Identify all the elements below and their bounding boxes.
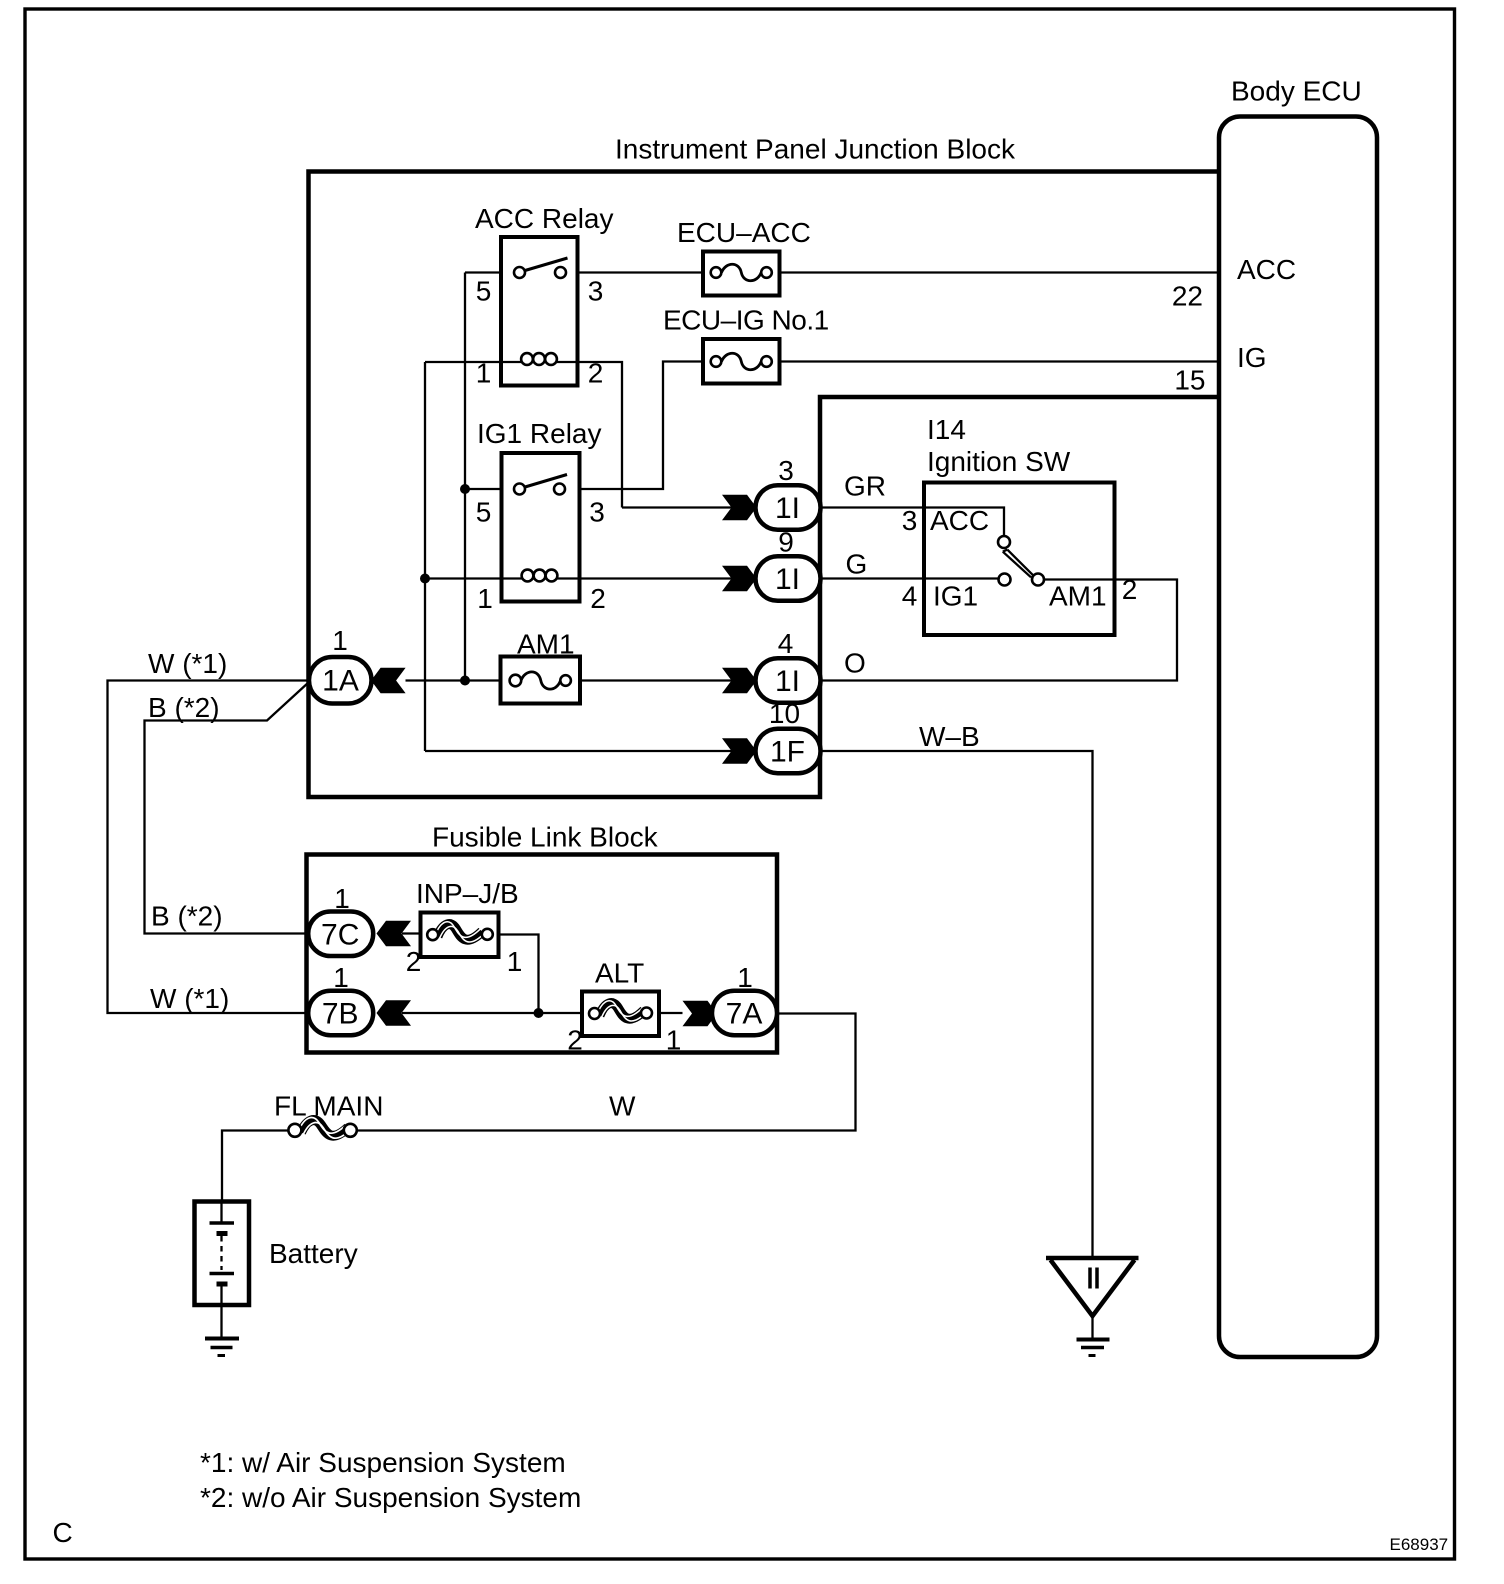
IC Body ECU outline	[1219, 117, 1377, 1358]
svg-text:*1: w/ Air Suspension System: *1: w/ Air Suspension System	[200, 1447, 566, 1478]
junction dot x425 IG1 pin1	[420, 574, 430, 584]
wire net G: IG1 relay pin2 to connector 1I	[580, 577, 756, 579]
svg-text:2: 2	[567, 1025, 583, 1056]
wire FL MAIN to battery positive	[222, 1131, 289, 1202]
connector 1F oval	[756, 729, 821, 774]
connector 1I (G) oval	[756, 556, 821, 601]
junction dot x465 IG1 pin5	[460, 484, 470, 494]
svg-text:7C: 7C	[321, 919, 359, 952]
fuse ALT box	[582, 992, 659, 1037]
battery B1 box	[195, 1202, 250, 1306]
wire net W: connector 7A to FL MAIN	[357, 1014, 856, 1131]
fuse ALT element (fusible link)	[589, 1001, 652, 1021]
connector 7A oval	[712, 991, 777, 1035]
svg-text:5: 5	[476, 276, 492, 307]
fuse INP-J/B element (fusible link)	[427, 922, 493, 942]
svg-text:AM1: AM1	[517, 629, 575, 660]
svg-text:*2: w/o Air Suspension System: *2: w/o Air Suspension System	[200, 1482, 581, 1513]
wire fuse INP-J/B pin1 to ALT wire junction	[499, 935, 539, 1014]
wire fuse ECU-IG No.1 to IG1 relay pin3	[580, 362, 704, 490]
wire net x425 to connector 1F	[425, 750, 756, 752]
svg-text:1I: 1I	[775, 665, 800, 698]
connector 1A arrow	[371, 668, 406, 693]
svg-text:INP–J/B: INP–J/B	[416, 878, 519, 909]
relay IG1 Relay box	[502, 453, 580, 602]
wire IG1 relay pin1 to node x425	[425, 577, 502, 579]
svg-text:W–B: W–B	[919, 721, 980, 752]
wire net GR: node x622 to connector 1I	[622, 506, 756, 508]
wire net G: connector 1I to ignition switch IG1 terminal	[821, 577, 1000, 579]
wire ACC relay pin3 to fuse ECU-ACC	[578, 271, 704, 273]
wire net ACC: fuse ECU-ACC to Body ECU pin22	[780, 271, 1220, 273]
svg-text:15: 15	[1174, 365, 1205, 396]
wire net GR: connector 1I to ignition switch ACC terminal	[821, 508, 1005, 539]
fuse AM1 element	[510, 672, 571, 689]
svg-text:C: C	[53, 1517, 73, 1548]
wire ACC relay pin5 to node x465	[465, 271, 501, 273]
svg-text:3: 3	[589, 497, 605, 528]
relay ACC Relay coil	[501, 353, 578, 365]
svg-text:W (*1): W (*1)	[150, 983, 229, 1014]
svg-text:4: 4	[902, 581, 918, 612]
wire ACC relay pin1 to node x425	[425, 361, 501, 363]
connector 1I (O) arrow	[722, 668, 757, 693]
svg-text:1: 1	[666, 1025, 682, 1056]
svg-text:B (*2): B (*2)	[151, 901, 223, 932]
fuse ECU-IG No.1 box	[703, 339, 780, 384]
switch I14 terminal ACC	[998, 536, 1010, 548]
junction dot INP-J/B to ALT wire	[534, 1008, 544, 1018]
svg-text:AM1: AM1	[1049, 581, 1107, 612]
battery B1 internal cells	[210, 1202, 235, 1339]
svg-text:1I: 1I	[775, 563, 800, 596]
connector 7B arrow	[377, 1000, 412, 1025]
svg-text:ACC: ACC	[930, 505, 989, 536]
connector 1I (GR) arrow	[722, 495, 757, 520]
fuse INP-J/B box	[421, 913, 499, 958]
svg-text:E68937: E68937	[1390, 1535, 1449, 1554]
connector 7C oval	[308, 912, 373, 957]
svg-text:Fusible Link Block: Fusible Link Block	[432, 822, 659, 853]
svg-text:1F: 1F	[770, 736, 805, 769]
wire fuse ALT pin1 to connector 7A	[659, 1012, 683, 1014]
wire net B(*2): connector 1A to connector 7C	[145, 682, 310, 934]
svg-text:1: 1	[333, 962, 349, 993]
svg-text:1: 1	[737, 962, 753, 993]
connector 7C arrow	[377, 921, 412, 946]
svg-text:1A: 1A	[322, 665, 359, 698]
relay ACC Relay switch contact pin5	[514, 267, 525, 278]
wire net IG: fuse ECU-IG No.1 to Body ECU pin15	[780, 360, 1220, 362]
wire connector 7B to fuse ALT pin2	[402, 1012, 582, 1014]
svg-text:4: 4	[778, 628, 794, 659]
wire IG1 relay pin5 to node x465	[465, 488, 502, 490]
svg-text:ACC Relay: ACC Relay	[475, 203, 613, 234]
junction dot x465 AM1 wire	[460, 676, 470, 686]
connector 1A oval	[309, 657, 372, 704]
svg-text:FL MAIN: FL MAIN	[274, 1091, 383, 1122]
svg-text:2: 2	[588, 358, 604, 389]
wire net W-B: connector 1F to shield ground	[821, 751, 1093, 1259]
svg-text:3: 3	[902, 505, 918, 536]
fuse ECU-ACC element	[711, 264, 772, 281]
svg-text:1I: 1I	[775, 492, 800, 525]
svg-text:10: 10	[769, 698, 800, 729]
svg-text:ECU–ACC: ECU–ACC	[677, 217, 811, 248]
svg-text:ACC: ACC	[1237, 254, 1296, 285]
switch I14 terminal IG1	[999, 574, 1011, 586]
block Fusible Link Block outline	[307, 855, 778, 1053]
svg-text:ALT: ALT	[595, 958, 644, 989]
connector 1I (GR) oval	[756, 485, 821, 530]
svg-text:I14: I14	[927, 414, 966, 445]
svg-text:IG1 Relay: IG1 Relay	[477, 418, 602, 449]
svg-text:2: 2	[1122, 574, 1138, 605]
wire AM1 fuse to connector 1A	[406, 679, 501, 681]
svg-text:O: O	[844, 648, 866, 679]
fuse AM1 box	[501, 657, 581, 704]
svg-text:W: W	[609, 1091, 636, 1122]
svg-text:Instrument Panel Junction Bloc: Instrument Panel Junction Block	[615, 134, 1016, 165]
svg-text:3: 3	[778, 455, 794, 486]
svg-text:2: 2	[406, 946, 422, 977]
switch I14 Ignition SW box	[924, 483, 1115, 636]
svg-text:9: 9	[778, 527, 794, 558]
svg-text:Ignition SW: Ignition SW	[927, 446, 1071, 477]
svg-text:22: 22	[1172, 281, 1203, 312]
connector 1I (O) oval	[756, 658, 821, 703]
connector 7A arrow	[683, 1001, 718, 1026]
wire vertical net x425 (relay coils to 1F)	[424, 362, 426, 751]
relay IG1 Relay coil	[502, 570, 580, 582]
svg-text:Body ECU: Body ECU	[1231, 76, 1362, 107]
svg-text:1: 1	[477, 583, 493, 614]
svg-text:Battery: Battery	[269, 1238, 358, 1269]
connector 1I (G) arrow	[722, 566, 757, 591]
ground symbol below shield triangle	[1077, 1340, 1110, 1356]
wire ACC relay pin2 to GR net	[578, 362, 623, 508]
switch I14 blade (double line ACC to AM1)	[1003, 550, 1033, 578]
wire net O: ignition switch AM1 terminal pin2 loop to connector 1I	[821, 580, 1178, 681]
svg-text:5: 5	[476, 497, 492, 528]
svg-text:IG: IG	[1237, 342, 1267, 373]
svg-text:7B: 7B	[322, 998, 359, 1031]
svg-text:IG1: IG1	[933, 581, 978, 612]
svg-text:GR: GR	[844, 471, 886, 502]
svg-text:W (*1): W (*1)	[148, 648, 227, 679]
relay ACC Relay switch contact pin3	[555, 267, 566, 278]
relay IG1 Relay switch contact pin5	[514, 484, 525, 495]
switch I14 terminal AM1	[1032, 574, 1044, 586]
wire AM1 fuse to connector 1I (O row)	[580, 679, 756, 681]
wire vertical net x465 (ACC pin5 / IG1 pin5 / AM1)	[464, 273, 466, 681]
svg-text:1: 1	[507, 946, 523, 977]
relay IG1 Relay switch contact pin3	[554, 484, 565, 495]
fuse ECU-IG No.1 element	[711, 353, 772, 370]
svg-text:2: 2	[590, 583, 606, 614]
connector 1F arrow	[722, 738, 757, 763]
block Instrument Panel Junction Block outline	[309, 172, 1220, 798]
relay ACC Relay switch blade	[525, 258, 568, 271]
wire connector 7C to its arrow	[402, 932, 421, 934]
svg-text:1: 1	[332, 625, 348, 656]
svg-text:ECU–IG No.1: ECU–IG No.1	[663, 305, 829, 336]
ground symbol below battery	[205, 1339, 239, 1356]
svg-text:B (*2): B (*2)	[148, 692, 220, 723]
svg-text:3: 3	[588, 276, 604, 307]
svg-text:1: 1	[476, 358, 492, 389]
relay IG1 Relay switch blade	[525, 475, 567, 488]
shield ground triangle II	[1046, 1258, 1139, 1339]
fuse ECU-ACC box	[703, 252, 780, 296]
connector 7B oval	[308, 991, 373, 1035]
svg-text:G: G	[846, 549, 868, 580]
wire net W(*1): connector 1A to connector 7B	[108, 681, 310, 1014]
relay ACC Relay box	[501, 237, 578, 386]
svg-text:7A: 7A	[726, 998, 763, 1031]
svg-text:1: 1	[334, 883, 350, 914]
fuse FL MAIN element (fusible link)	[288, 1118, 356, 1139]
